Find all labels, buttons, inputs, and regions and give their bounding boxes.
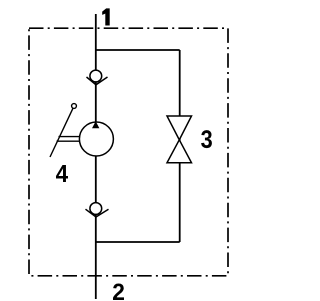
check valve (bottom) seat: [86, 209, 109, 217]
shut-off valve 3 lower triangle: [167, 140, 192, 163]
wire: bottom branch horizontal: [96, 241, 180, 243]
hand pump 4 lever link (double line): [59, 136, 80, 138]
enclosure border (dash-dot frame): [29, 28, 228, 276]
label port 2: [113, 284, 124, 300]
shut-off valve 3 upper triangle: [167, 116, 192, 140]
wire: main vertical line port 1 to port 2: [95, 14, 97, 299]
hand pump 4 lever knob: [72, 104, 77, 109]
label port 1: [102, 8, 110, 25]
check valve (top) seat: [87, 77, 108, 85]
wire: top branch horizontal: [96, 49, 180, 51]
check valve (bottom) ball: [90, 203, 102, 215]
label 4: [56, 165, 68, 182]
hand pump 4 body circle: [79, 122, 113, 156]
check valve (top) ball: [90, 70, 102, 82]
hand pump 4 lever arm: [50, 108, 73, 157]
wire: right branch vertical: [179, 50, 181, 242]
hand pump 4 flow triangle (filled, pointing up): [92, 121, 99, 128]
label 3: [201, 130, 212, 148]
